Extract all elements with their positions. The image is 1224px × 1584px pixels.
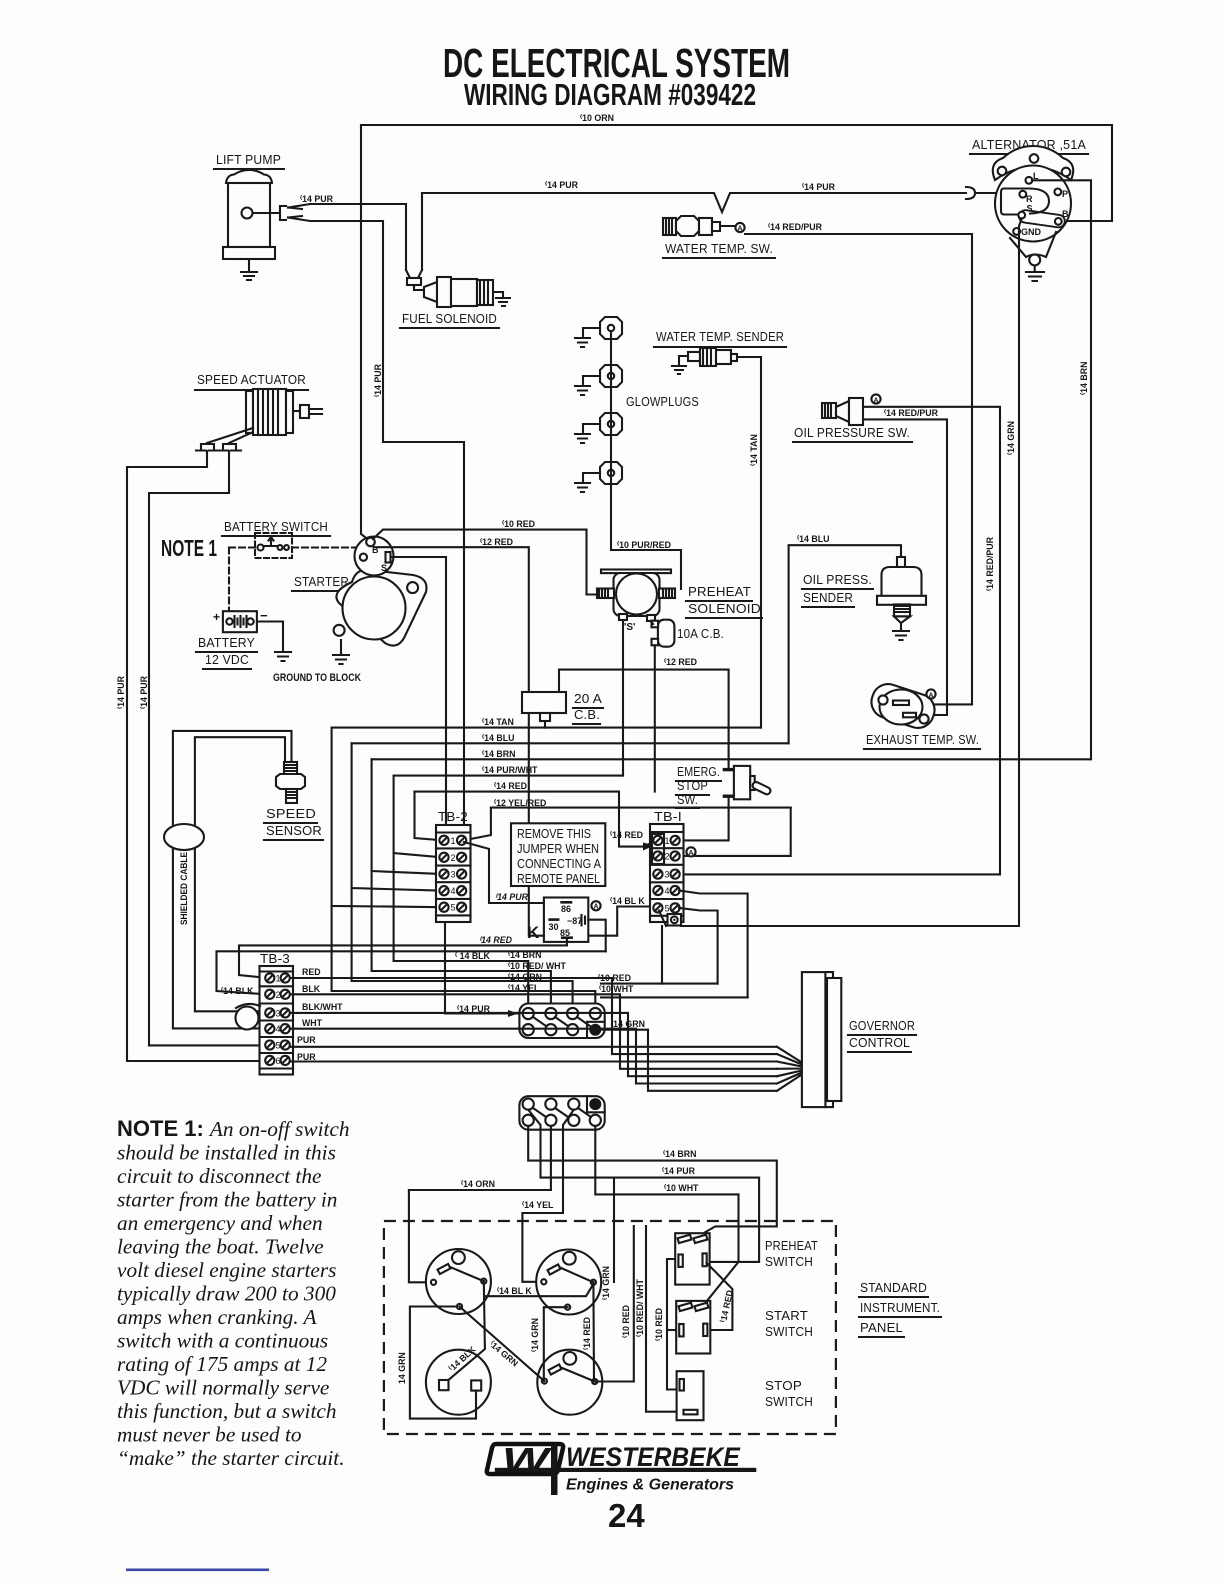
svg-text:SHIELDED CABLE: SHIELDED CABLE xyxy=(179,852,189,925)
svg-text:⁽10 RED/ WHT: ⁽10 RED/ WHT xyxy=(635,1278,645,1337)
svg-text:PANEL: PANEL xyxy=(860,1320,903,1335)
wire RED bus down to TB-2 row1 xyxy=(415,792,443,841)
ground at battery xyxy=(275,652,291,661)
svg-text:3: 3 xyxy=(665,870,670,880)
svg-text:⁽14 BRN: ⁽14 BRN xyxy=(482,749,515,759)
terminal block TB-2 xyxy=(436,809,471,922)
wire YEL/RED bus down to TB-2 row1 right xyxy=(464,808,491,841)
svg-text:A: A xyxy=(688,850,693,857)
wire K 85 to RED bus xyxy=(566,939,568,945)
svg-text:R: R xyxy=(1026,194,1033,204)
wire TB-3 row3 to governor bundle xyxy=(290,1013,777,1076)
svg-text:SWITCH: SWITCH xyxy=(765,1324,813,1339)
svg-text:⁽14 GRN: ⁽14 GRN xyxy=(601,1266,611,1300)
svg-text:24: 24 xyxy=(608,1497,645,1534)
wire TB-1 row5 to #10 RED bus xyxy=(679,908,718,984)
wire #12 RED 20A CB to emerg stop sw xyxy=(559,670,729,768)
svg-text:SWITCH: SWITCH xyxy=(765,1254,813,1269)
wire TB-3 row2 to governor bundle xyxy=(290,994,777,1069)
svg-text:START: START xyxy=(765,1308,808,1323)
bus #14 TAN xyxy=(332,727,761,729)
svg-text:“make” the starter circuit.: “make” the starter circuit. xyxy=(117,1446,345,1470)
svg-text:⁽14 BLU: ⁽14 BLU xyxy=(797,534,829,544)
emergency stop switch ESW xyxy=(676,764,772,808)
svg-text:A: A xyxy=(593,904,598,911)
wire TB-3 row4 to governor bundle xyxy=(290,1029,777,1084)
svg-text:GOVERNOR: GOVERNOR xyxy=(849,1018,915,1033)
wire #14 BLU sender to BLU bus xyxy=(789,545,901,743)
svg-text:EXHAUST TEMP. SW.: EXHAUST TEMP. SW. xyxy=(866,732,979,747)
svg-text:4: 4 xyxy=(451,886,456,896)
wire starter S to TB-2 row1 xyxy=(391,557,447,838)
svg-text:⁽ 14 BLK: ⁽ 14 BLK xyxy=(455,951,491,961)
svg-text:STOP: STOP xyxy=(677,778,708,793)
wire #14 GRN connector C1 to governor bundle xyxy=(601,1030,777,1091)
svg-text:rating of 175 amps at 12: rating of 175 amps at 12 xyxy=(117,1352,327,1376)
bus #14 BLK to TB-3 row2 xyxy=(217,951,606,994)
wire #14 RED preheat right to start right xyxy=(707,1263,733,1330)
svg-text:S: S xyxy=(381,563,387,573)
wire #14 PUR fuel solenoid to water temp sw and alternator R xyxy=(422,193,966,270)
battery BT1 12VDC xyxy=(196,608,268,669)
svg-text:'S': 'S' xyxy=(624,622,635,633)
bus #10 RED to TB-1 row5 xyxy=(601,983,718,985)
svg-text:⁽14 PUR: ⁽14 PUR xyxy=(662,1166,696,1176)
wire #14 PUR from clamp1 to TB-3 row6 xyxy=(127,451,267,1061)
svg-text:SWITCH: SWITCH xyxy=(765,1394,813,1409)
svg-text:⁽14 BL K: ⁽14 BL K xyxy=(610,896,645,906)
wire dashed battery switch to battery + xyxy=(228,548,230,612)
svg-text:⁽14 RED/PUR: ⁽14 RED/PUR xyxy=(884,408,939,418)
svg-text:WATER TEMP. SW.: WATER TEMP. SW. xyxy=(665,241,773,256)
terminal block TB-3 xyxy=(260,951,294,1075)
svg-text:⁽14 PUR: ⁽14 PUR xyxy=(373,363,383,397)
westerbeke logo xyxy=(487,1441,757,1495)
svg-text:REMOVE THIS: REMOVE THIS xyxy=(517,827,591,841)
glowplug GP4 xyxy=(600,462,622,484)
glowplug GP3 xyxy=(600,413,622,435)
svg-text:⁽14 GRN: ⁽14 GRN xyxy=(488,1339,520,1368)
wire #14 PUR lift pump lower to TB-2 row1 xyxy=(288,216,464,838)
wire gauge4 right to #10 RED vertical xyxy=(595,1380,634,1382)
svg-text:⁽14 BRN: ⁽14 BRN xyxy=(508,950,541,960)
wire TB-2 row4 tail to ORN bus xyxy=(352,888,573,1008)
svg-text:should be installed in this: should be installed in this xyxy=(117,1141,336,1165)
wire #14 PUR into connector C1 xyxy=(445,922,518,1014)
svg-text:⁽14 PUR/WHT: ⁽14 PUR/WHT xyxy=(482,765,538,775)
wire TB-2 row3 tail to RED/WHT-bus xyxy=(372,871,551,1008)
svg-text:WHT: WHT xyxy=(302,1018,323,1028)
start switch SW2 xyxy=(676,1301,813,1354)
wire glowplug bus #10 PUR/RED to preheat solenoid right terminal xyxy=(611,331,681,589)
svg-text:S: S xyxy=(1027,204,1033,214)
svg-text:30: 30 xyxy=(549,922,559,932)
svg-text:1: 1 xyxy=(276,974,281,984)
svg-text:FUEL SOLENOID: FUEL SOLENOID xyxy=(402,311,497,326)
wire K 87 to BLK bus xyxy=(588,920,605,952)
circled-A at oil pressure sw xyxy=(871,394,880,404)
ground at oil press sender xyxy=(893,623,909,640)
wire #14 RED/PUR water temp sw to exhaust temp sw xyxy=(745,234,972,704)
wire BRN bus down to TB-2 row3 xyxy=(372,759,442,874)
ground below lift pump xyxy=(241,259,257,280)
svg-text:5: 5 xyxy=(276,1041,281,1051)
wire BLU bus down to TB-2 row4 xyxy=(352,743,442,890)
connector bracket at alternator R input xyxy=(966,187,1020,199)
svg-text:SENSOR: SENSOR xyxy=(266,823,322,838)
svg-text:⁽12 YEL/RED: ⁽12 YEL/RED xyxy=(494,798,546,808)
svg-text:SW.: SW. xyxy=(677,792,698,807)
svg-text:⁽14 BLK: ⁽14 BLK xyxy=(221,986,254,996)
svg-text:EMERG.: EMERG. xyxy=(677,764,720,779)
svg-text:⁽14 RED/PUR: ⁽14 RED/PUR xyxy=(985,536,995,591)
alternator U-ALT 51A xyxy=(970,137,1088,265)
glowplug GP1 xyxy=(600,317,622,339)
svg-text:⁽14 BL K: ⁽14 BL K xyxy=(497,1286,532,1296)
wire TB-1 row5 diagonal to GRN line xyxy=(659,911,666,984)
wire oil sw top to TB-1 row3 xyxy=(679,407,1000,875)
svg-text:⁽14 BLU: ⁽14 BLU xyxy=(482,733,514,743)
svg-text:⁽14 PUR: ⁽14 PUR xyxy=(116,675,126,709)
ground below alternator xyxy=(1026,266,1044,282)
circled-A at relay K xyxy=(591,901,600,911)
svg-text:LIFT PUMP: LIFT PUMP xyxy=(216,152,281,167)
wire #14 PUR from clamp2 to TB-3 row5 xyxy=(149,451,267,1045)
svg-text:⁽14 TAN: ⁽14 TAN xyxy=(482,717,514,727)
wire TB-3 row1 to governor bundle xyxy=(290,978,777,1054)
ground GP3 xyxy=(575,424,600,443)
wire dashed battery switch to starter B xyxy=(229,546,255,548)
jumper note box xyxy=(511,823,605,886)
speed sensor connector circle at TB-3 xyxy=(236,1004,260,1008)
svg-text:this function, but a switch: this function, but a switch xyxy=(117,1399,336,1423)
speed actuator cable clamps xyxy=(196,444,219,451)
ground GP2 xyxy=(575,376,600,395)
20A circuit breaker CB1 xyxy=(522,691,603,724)
svg-text:⁽14 YEL: ⁽14 YEL xyxy=(522,1200,554,1210)
svg-text:1: 1 xyxy=(451,836,456,846)
ground at water temp sender xyxy=(672,356,688,374)
svg-text:TB-I: TB-I xyxy=(654,809,682,824)
svg-text:⁽12 RED: ⁽12 RED xyxy=(480,537,513,547)
wire #14 BLK gauge1 right to hour meter xyxy=(448,1281,485,1380)
svg-text:OIL PRESSURE SW.: OIL PRESSURE SW. xyxy=(794,425,910,440)
bus #14 RED xyxy=(415,791,620,793)
svg-text:⁽10 PUR/RED: ⁽10 PUR/RED xyxy=(617,540,671,550)
ground GP4 xyxy=(575,473,600,492)
stop switch SW3 xyxy=(677,1371,813,1420)
wire #14 BRN connector C2 to preheat switch top xyxy=(528,1126,777,1232)
connector C2 panel harness xyxy=(519,1096,604,1130)
preheat switch SW1 xyxy=(675,1233,818,1284)
svg-text:TB-3: TB-3 xyxy=(260,951,290,966)
svg-text:⁽14 RED: ⁽14 RED xyxy=(494,781,527,791)
wire #10 RED/WHT vertical to stop switch bottom xyxy=(646,1226,681,1412)
svg-text:RED: RED xyxy=(302,967,321,977)
svg-text:circuit to disconnect the: circuit to disconnect the xyxy=(117,1164,321,1188)
wire #14 GRN gauge2 bottom to gauge4 left xyxy=(544,1307,568,1381)
wire #10 RED preheat-start-stop left slots xyxy=(667,1259,678,1390)
svg-text:STARTER: STARTER xyxy=(294,574,349,589)
wire speed actuator leads to clamps xyxy=(207,428,253,443)
bus #10 WHT to TB-1 row4 xyxy=(601,996,748,998)
svg-text:B: B xyxy=(1062,209,1069,219)
wire vertical #14 PUR to starter B xyxy=(361,125,370,541)
svg-text:A: A xyxy=(928,692,933,699)
svg-text:an emergency and when: an emergency and when xyxy=(117,1211,323,1235)
svg-text:20 A: 20 A xyxy=(574,691,602,706)
svg-text:W: W xyxy=(502,1441,553,1478)
speed actuator SA xyxy=(195,372,322,435)
svg-text:volt diesel engine starters: volt diesel engine starters xyxy=(117,1258,336,1282)
svg-text:⁽10 RED: ⁽10 RED xyxy=(654,1308,664,1341)
gauge G1 xyxy=(426,1249,491,1314)
svg-text:⁽10 RED/ WHT: ⁽10 RED/ WHT xyxy=(508,961,567,971)
svg-text:STOP: STOP xyxy=(765,1378,802,1393)
relay K xyxy=(527,898,588,943)
wire #10 RED vertical to gauge4 xyxy=(633,1226,635,1382)
svg-text:amps when cranking. A: amps when cranking. A xyxy=(117,1305,318,1329)
svg-text:⁽14 BRN: ⁽14 BRN xyxy=(663,1149,696,1159)
wire #14 TAN sender to TAN bus xyxy=(737,357,761,728)
svg-text:⁽10 WHT: ⁽10 WHT xyxy=(599,984,634,994)
wire #14 PUR TB-2 row1 to K coil xyxy=(464,842,544,903)
wire YEL/RED bus right end down to TB-1 row2 xyxy=(678,808,791,856)
glowplug GP2 xyxy=(600,365,622,387)
oil pressure sender OPSE xyxy=(797,534,926,623)
svg-text:⁽14 PUR: ⁽14 PUR xyxy=(300,194,334,204)
svg-text:⁽14 YEL: ⁽14 YEL xyxy=(508,983,540,993)
bus #14 BLU xyxy=(352,742,789,744)
wire TB-2 row2 tail to ORN-bus xyxy=(394,853,529,1008)
instrument panel dashed border xyxy=(384,1221,836,1434)
svg-text:2: 2 xyxy=(665,852,670,862)
wire 10A CB to #14 RED bus xyxy=(654,645,656,791)
svg-text:−87: −87 xyxy=(567,916,582,926)
fuel solenoid FS xyxy=(400,270,510,328)
svg-text:SPEED: SPEED xyxy=(266,806,316,821)
speed sensor SS xyxy=(264,762,323,840)
svg-text:REMOTE PANEL: REMOTE PANEL xyxy=(517,872,600,886)
wire #14 RED gauge2 right to gauge4 right xyxy=(592,1282,595,1381)
svg-text:CONNECTING A: CONNECTING A xyxy=(517,857,602,871)
svg-text:SOLENOID: SOLENOID xyxy=(688,601,761,616)
svg-text:⁽14 GRN: ⁽14 GRN xyxy=(530,1318,540,1352)
svg-text:SENDER: SENDER xyxy=(803,590,853,605)
wire #10 WHT connector C2 to start switch xyxy=(595,1126,738,1305)
wire #14 GRN vertical into panel xyxy=(613,1178,615,1282)
preheat solenoid PS xyxy=(597,570,762,634)
svg-text:BATTERY SWITCH: BATTERY SWITCH xyxy=(224,519,328,534)
svg-text:OIL PRESS.: OIL PRESS. xyxy=(803,572,872,587)
wire alternator S down #14 GRN xyxy=(681,219,1022,927)
svg-text:4: 4 xyxy=(665,886,670,896)
svg-text:2: 2 xyxy=(276,990,281,1000)
svg-text:⁽14 RED: ⁽14 RED xyxy=(479,935,513,945)
governor control GC xyxy=(802,972,916,1107)
circled-A right of TB-1 xyxy=(686,847,695,856)
svg-text:CONTROL: CONTROL xyxy=(849,1035,910,1050)
gauge G4 xyxy=(537,1350,602,1415)
svg-text:⁽10 WHT: ⁽10 WHT xyxy=(664,1183,699,1193)
svg-text:86: 86 xyxy=(561,904,571,914)
wire emerg stop bottom to TB-1 row1 xyxy=(679,798,729,840)
lift pump LP xyxy=(214,152,286,259)
svg-text:6: 6 xyxy=(276,1056,281,1066)
svg-text:NOTE 1: NOTE 1 xyxy=(161,535,217,561)
ground at starter xyxy=(333,640,349,664)
water temp switch WTS xyxy=(663,216,775,258)
gauge G3 hour meter xyxy=(426,1350,491,1415)
governor bundle convergence xyxy=(777,1047,802,1091)
svg-text:PREHEAT: PREHEAT xyxy=(765,1238,818,1253)
svg-text:⁽14 PUR: ⁽14 PUR xyxy=(545,180,579,190)
wire 20A CB bottom to TAN bus xyxy=(544,721,546,728)
ground GP1 xyxy=(575,328,600,347)
svg-text:INSTRUMENT.: INSTRUMENT. xyxy=(860,1300,940,1315)
bus #12 YEL/RED xyxy=(491,807,791,809)
svg-text:STANDARD: STANDARD xyxy=(860,1280,927,1295)
svg-text:⁽14 ORN: ⁽14 ORN xyxy=(461,1179,495,1189)
svg-text:must never be used to: must never be used to xyxy=(117,1423,302,1447)
svg-text:SPEED ACTUATOR: SPEED ACTUATOR xyxy=(197,372,306,387)
bus #14 PUR/WHT xyxy=(394,775,623,777)
svg-text:4: 4 xyxy=(276,1024,281,1034)
svg-text:BLK/WHT: BLK/WHT xyxy=(302,1002,343,1012)
wire #12 RED starter B to K relay area xyxy=(374,547,655,936)
wire oil sw bottom to exhaust temp sw xyxy=(863,419,947,715)
svg-text:5: 5 xyxy=(665,903,670,913)
10A circuit breaker CB2 xyxy=(652,620,725,647)
svg-text:A: A xyxy=(737,225,742,232)
svg-text:WATER TEMP. SENDER: WATER TEMP. SENDER xyxy=(656,329,784,344)
svg-text:⁽10 RED: ⁽10 RED xyxy=(621,1305,631,1338)
circled-A at exhaust temp sw xyxy=(926,689,935,699)
svg-text:⁽14 PUR: ⁽14 PUR xyxy=(495,892,529,902)
wire #14 ORN connector C2 to gauge1 xyxy=(409,1126,551,1282)
wire alternator L to #14 BRN vertical xyxy=(1032,180,1091,759)
svg-text:⁽14 TAN: ⁽14 TAN xyxy=(749,434,759,466)
svg-text:switch with a continuous: switch with a continuous xyxy=(117,1329,328,1353)
wire battery negative to ground xyxy=(257,622,283,653)
svg-text:⁽14 BRN: ⁽14 BRN xyxy=(1079,362,1089,395)
wire TB-1 row4 to #10 WHT bus xyxy=(679,891,748,998)
svg-text:BATTERY: BATTERY xyxy=(198,635,255,650)
svg-text:WIRING DIAGRAM #039422: WIRING DIAGRAM #039422 xyxy=(464,77,756,112)
svg-text:P: P xyxy=(1062,189,1068,199)
svg-text:GND: GND xyxy=(1021,227,1042,237)
wire TB-3 row5 to governor bundle xyxy=(290,1046,777,1048)
exhaust temp switch ETS xyxy=(864,680,980,749)
svg-text:14 GRN: 14 GRN xyxy=(397,1352,407,1384)
svg-text:NOTE 1: An on-off switch: NOTE 1: An on-off switch xyxy=(117,1116,350,1141)
wire #14 PUR lift pump to fuel solenoid xyxy=(288,204,406,270)
svg-text:leaving the boat. Twelve: leaving the boat. Twelve xyxy=(117,1235,324,1259)
svg-text:1: 1 xyxy=(665,836,670,846)
svg-text:typically draw 200 to 300: typically draw 200 to 300 xyxy=(117,1282,336,1306)
wire shielded pair speed sensor to TB-3 rows3-4 xyxy=(173,731,292,1029)
bus #14 RED to TB-3 row1 xyxy=(239,945,567,978)
battery switch BS xyxy=(222,519,330,558)
wire #10 RED starter B to preheat solenoid left xyxy=(373,530,597,595)
wire 14 GRN gauge1 bottom loop to hour meter right xyxy=(410,1307,476,1419)
svg-text:⁽10 RED: ⁽10 RED xyxy=(502,519,535,529)
svg-text:starter from the battery in: starter from the battery in xyxy=(117,1188,337,1212)
svg-text:2: 2 xyxy=(451,853,456,863)
wire TAN bus down to TB-2 row5 xyxy=(332,728,442,908)
note 1 paragraph xyxy=(117,1116,350,1470)
svg-text:GROUND TO BLOCK: GROUND TO BLOCK xyxy=(273,672,361,684)
svg-text:⁽14 PUR: ⁽14 PUR xyxy=(139,675,149,709)
svg-text:VDC will normally serve: VDC will normally serve xyxy=(117,1376,329,1400)
svg-text:⁽14 PUR: ⁽14 PUR xyxy=(802,182,836,192)
wire top bus #10 ORN from fuel-pump column to alternator B xyxy=(361,125,1112,221)
svg-text:3: 3 xyxy=(276,1008,281,1018)
oil pressure switch OPS xyxy=(793,398,912,442)
svg-text:⁽14 GRN: ⁽14 GRN xyxy=(1006,421,1016,455)
blue mark bottom left xyxy=(126,1569,269,1572)
wire preheat S stub to PUR/WHT bus xyxy=(622,620,624,776)
wire #14 YEL connector C2 to gauge2 xyxy=(522,1110,573,1282)
svg-text:5: 5 xyxy=(451,903,456,913)
svg-text:PUR: PUR xyxy=(297,1035,316,1045)
svg-text:⁽14 RED: ⁽14 RED xyxy=(610,830,643,840)
gauge G2 xyxy=(536,1250,601,1315)
svg-text:K: K xyxy=(527,923,540,942)
svg-text:PREHEAT: PREHEAT xyxy=(688,584,751,599)
wire #14 PUR connector C2 to preheat switch xyxy=(528,1110,759,1262)
svg-text:A: A xyxy=(873,397,878,404)
title xyxy=(443,40,790,112)
wire preheat right stub to 10A CB xyxy=(651,621,653,624)
svg-text:⁽12 RED: ⁽12 RED xyxy=(664,657,697,667)
wire #14 GRN gauge1 bottom diagonal to gauge4 left xyxy=(460,1307,545,1382)
wire #14 RED bus to TB-1 row1 with jumper box tap xyxy=(619,792,655,847)
circled-A at water temp sw xyxy=(735,223,744,233)
svg-text:⁽14 RED/PUR: ⁽14 RED/PUR xyxy=(768,222,823,232)
svg-text:TB-2: TB-2 xyxy=(438,809,468,824)
label STANDARD INSTRUMENT PANEL xyxy=(859,1280,941,1337)
svg-text:⁽10 ORN: ⁽10 ORN xyxy=(580,113,614,123)
svg-text:Engines & Generators: Engines & Generators xyxy=(566,1477,734,1494)
wire TB-3 row6 to governor bundle xyxy=(290,1060,777,1062)
wire #14 BLK link gauge1-gauge2 xyxy=(485,1284,594,1296)
connector C1 engine harness xyxy=(519,1004,604,1039)
shielded cable oval xyxy=(164,824,204,850)
svg-text:+: + xyxy=(213,610,220,624)
svg-text:12 VDC: 12 VDC xyxy=(205,652,249,667)
svg-text:10A C.B.: 10A C.B. xyxy=(677,626,724,641)
svg-text:C.B.: C.B. xyxy=(574,707,600,722)
wire TB-2 row5 tail to YEL bus xyxy=(332,906,596,1008)
bus #14 BRN xyxy=(372,758,1091,760)
water temp sender WTSE xyxy=(654,329,786,366)
svg-text:BLK: BLK xyxy=(302,984,321,994)
starter M1 xyxy=(292,537,426,646)
svg-text:3: 3 xyxy=(451,870,456,880)
wire PUR/WHT bus down to TB-2 row2 xyxy=(394,776,442,858)
svg-text:⁽14 RED: ⁽14 RED xyxy=(582,1317,592,1350)
svg-text:JUMPER WHEN: JUMPER WHEN xyxy=(517,842,599,856)
terminal block TB-1 xyxy=(650,809,684,926)
svg-text:GLOWPLUGS: GLOWPLUGS xyxy=(626,394,699,409)
